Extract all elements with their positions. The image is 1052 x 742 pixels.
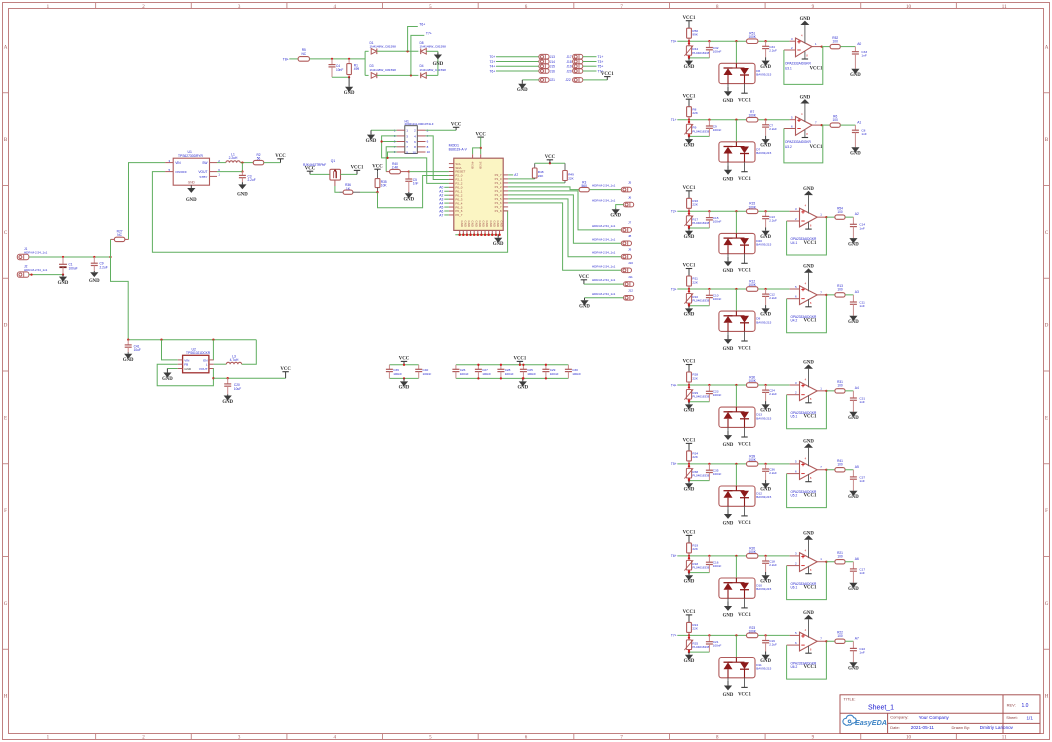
resistor R41 100 [835, 459, 845, 472]
svg-text:VCC1: VCC1 [683, 186, 696, 191]
resistor R16 22K [687, 198, 699, 211]
svg-text:VCC1: VCC1 [810, 67, 823, 72]
resistor R22 100 [835, 630, 845, 643]
svg-text:11: 11 [1002, 5, 1007, 10]
svg-text:100nF: 100nF [550, 372, 559, 376]
capacitor C41 10uF [125, 340, 141, 353]
junction C24 tap [764, 384, 766, 386]
connector J15 [539, 64, 555, 69]
svg-text:U4.2: U4.2 [791, 319, 798, 323]
junction C15 tap [708, 210, 710, 212]
junction MOD1 gnd pin [477, 234, 480, 237]
svg-text:H: H [4, 695, 8, 700]
ground below R17 [684, 228, 695, 240]
net label T6+ [490, 69, 496, 73]
svg-text:GND: GND [493, 242, 504, 247]
svg-text:GND: GND [684, 65, 695, 70]
svg-text:GND: GND [684, 409, 695, 414]
power symbol VCC1 at R8 [683, 94, 696, 106]
ground below R29 [684, 402, 695, 414]
svg-text:GND: GND [723, 443, 734, 448]
junction U2 VIN tap [160, 339, 162, 341]
svg-text:T2+: T2+ [490, 60, 496, 64]
net label T5+ channel 6 [671, 462, 677, 466]
svg-text:A7: A7 [514, 173, 518, 177]
svg-text:100K: 100K [748, 629, 756, 633]
ground below R25 [684, 652, 695, 664]
ground below C7 [760, 136, 771, 149]
resistor R39 100K [747, 454, 758, 466]
junction R38 top [688, 465, 690, 467]
wire U2 input rail [128, 339, 256, 341]
photoresistor R44 [684, 41, 709, 58]
wire bridge right vertical [437, 51, 439, 75]
power symbol VCC1 at U6.1 [804, 586, 817, 591]
svg-text:1nF: 1nF [861, 54, 866, 58]
junction U5.2 output [825, 469, 827, 471]
wire channel 1 main net [677, 40, 789, 42]
svg-text:100K: 100K [748, 205, 756, 209]
net label A7 [855, 636, 859, 640]
EasyEDA logo [843, 715, 887, 727]
svg-text:100K: 100K [748, 550, 756, 554]
svg-text:2.2uF: 2.2uF [769, 127, 777, 131]
power symbol VCC1 at U4.2 [804, 319, 817, 324]
net label T5+ [598, 65, 604, 69]
connector J18 [566, 59, 582, 64]
op-amp U4.2 OPA2333AIDGKR [787, 273, 827, 323]
svg-text:2.2uF: 2.2uF [769, 296, 777, 300]
svg-text:1nF: 1nF [861, 132, 866, 136]
svg-text:PL04016338: PL04016338 [692, 51, 709, 55]
svg-text:J21: J21 [550, 78, 555, 82]
svg-text:HDR-M-2.54_1x1: HDR-M-2.54_1x1 [592, 184, 616, 188]
ground at VCC1 cap bank [517, 378, 528, 390]
svg-text:HDR-M-2.54_1x1: HDR-M-2.54_1x1 [592, 264, 616, 268]
junction C20 tap [227, 377, 229, 379]
junction U5.1 output [825, 390, 827, 392]
junction C1 tap [62, 256, 64, 258]
header H1 2x5 [394, 119, 434, 154]
svg-text:100nF: 100nF [713, 393, 722, 397]
power symbol VCC1 at cap bank [514, 357, 527, 365]
svg-text:VCC1: VCC1 [351, 166, 364, 171]
power symbol VCC1 at U4.1 [804, 241, 817, 246]
svg-text:GND: GND [723, 614, 734, 619]
svg-text:10uF: 10uF [234, 387, 241, 391]
svg-text:4.7uH: 4.7uH [230, 358, 239, 362]
ground at VCC cap bank [399, 378, 410, 390]
dual diode D20 BAV99 [719, 233, 772, 263]
capacitor C25 [520, 365, 536, 379]
wire U2 L pin [214, 363, 227, 365]
ground at J6 [610, 209, 621, 219]
wire net A7 stub [444, 214, 449, 216]
svg-text:GND: GND [684, 488, 695, 493]
diode D1 1N4148W [370, 41, 397, 54]
wire Q1 drain stub [334, 180, 336, 186]
svg-text:1N4148W_C81598: 1N4148W_C81598 [370, 68, 397, 72]
resistor R23 100K [747, 626, 758, 638]
svg-text:100nF: 100nF [527, 372, 536, 376]
net label A3 [439, 197, 443, 201]
capacitor C20 10uF [224, 378, 241, 394]
net label A3 [855, 290, 859, 294]
svg-text:3V3B: 3V3B [479, 162, 483, 169]
junction C9 tap [708, 119, 710, 121]
junction R44 top [688, 42, 690, 44]
svg-text:GND: GND [800, 95, 811, 100]
capacitor C21 100nF [706, 635, 722, 652]
ground at U1 [186, 185, 197, 203]
net label A0 [857, 42, 861, 46]
ground below C24 [760, 401, 771, 414]
wire net A4 stub [444, 202, 449, 204]
junction R18 node [688, 555, 690, 557]
wire MOD1 to R49 [508, 182, 565, 184]
svg-text:GND: GND [760, 65, 771, 70]
capacitor C10 100nF [706, 289, 722, 306]
svg-text:U3.1: U3.1 [785, 67, 792, 71]
junction VCC1 stem [519, 364, 521, 366]
ground below R9 [684, 136, 695, 148]
capacitor C24 2.2uF [762, 385, 777, 401]
resistor R20 100K [747, 546, 758, 558]
wire MOD1 to J7 [508, 191, 621, 230]
resistor R7 100K [747, 110, 758, 122]
dual diode D10 BAV99 [719, 578, 772, 608]
transistor Q1 RJK4462TRPbF [303, 159, 341, 180]
svg-text:GND: GND [760, 143, 771, 148]
svg-text:A6: A6 [855, 557, 859, 561]
power symbol VCC1 at U5.1 [804, 415, 817, 420]
svg-text:GND: GND [684, 580, 695, 585]
svg-text:VCC1: VCC1 [738, 177, 751, 182]
svg-text:1nF: 1nF [859, 479, 864, 483]
resistor R40 2.4K [386, 162, 409, 174]
net label T7+ [598, 69, 604, 73]
svg-text:10: 10 [906, 5, 912, 10]
svg-text:10K: 10K [381, 184, 388, 188]
wire clamp to D12 [735, 464, 737, 486]
junction R10 bottom [688, 303, 690, 305]
svg-text:Date:: Date: [890, 725, 900, 730]
wire R29 ground link [689, 401, 709, 403]
svg-text:VCC1: VCC1 [683, 264, 696, 269]
wire T6+ vertical to MOD1 [407, 50, 409, 52]
wire channel 6 main net [677, 463, 789, 465]
svg-text:GND: GND [848, 667, 859, 672]
svg-text:VCC1: VCC1 [683, 439, 696, 444]
svg-text:2.2uF: 2.2uF [100, 265, 108, 269]
capacitor C11 1nF [850, 295, 865, 316]
wire T8+ to R5 [289, 58, 298, 60]
svg-text:A: A [1045, 45, 1049, 50]
svg-text:VCC: VCC [475, 132, 486, 137]
svg-text:J13: J13 [550, 55, 555, 59]
capacitor C40 [415, 365, 431, 379]
connector J2 [17, 265, 47, 278]
junction clamp tap [735, 40, 737, 42]
connector J22 [565, 78, 582, 83]
svg-text:1nF: 1nF [859, 226, 864, 230]
svg-text:GND: GND [489, 221, 493, 227]
svg-text:GND: GND [366, 139, 377, 144]
junction node T7+ [410, 74, 412, 76]
junction MOD1 gnd pin [491, 234, 494, 237]
junction J2 stub [30, 273, 32, 275]
junction C18 tap [764, 555, 766, 557]
junction pullup VCC [549, 162, 551, 164]
wire diode rows left vertical [364, 51, 366, 75]
svg-text:100nF: 100nF [460, 372, 469, 376]
svg-text:GND: GND [723, 99, 734, 104]
junction R10 node [688, 288, 690, 290]
svg-text:OPA2333AIDGKR: OPA2333AIDGKR [785, 62, 812, 66]
svg-text:10uF: 10uF [134, 348, 141, 352]
svg-text:GND: GND [760, 580, 771, 585]
svg-text:BAV99,215: BAV99,215 [756, 151, 771, 155]
svg-text:GND: GND [478, 221, 482, 227]
title block [840, 695, 1040, 734]
ground above U4.2 [803, 265, 814, 273]
wire U2 EN to rail [212, 340, 214, 360]
junction MOD1 gnd pin [466, 234, 469, 237]
ground below R44 [684, 58, 695, 70]
svg-text:GND: GND [803, 440, 814, 445]
svg-text:1nF: 1nF [859, 571, 864, 575]
resistor R54 100 [835, 206, 845, 219]
wire pullup rail [535, 162, 565, 164]
svg-text:U3.2: U3.2 [785, 145, 792, 149]
svg-text:Sheet:: Sheet: [1006, 715, 1018, 720]
wire channel 4 main net [677, 288, 789, 290]
junction MOD1 gnd pin [480, 234, 483, 237]
wire output to R22 [826, 640, 835, 642]
wire MOD1 ground rail [455, 234, 499, 236]
net label A1 [857, 120, 861, 124]
junction R25 top [688, 637, 690, 639]
connector J13 [539, 54, 555, 59]
svg-text:T4+: T4+ [671, 383, 677, 387]
svg-text:2.2uF: 2.2uF [769, 471, 777, 475]
wire U2 GND pin [167, 368, 177, 370]
svg-text:T7+: T7+ [426, 32, 432, 36]
resistor R3 560 [579, 180, 589, 191]
svg-text:GND: GND [162, 377, 173, 382]
dual diode D13 BAV99 [719, 407, 772, 437]
svg-text:J5: J5 [628, 180, 632, 184]
capacitor C28 [497, 365, 513, 379]
ground below C33 [850, 69, 861, 78]
junction MOD1 gnd pin [498, 234, 501, 237]
ground below D9 [723, 335, 734, 352]
ground below C37 [848, 491, 859, 500]
power symbol VCC at R35 [372, 164, 383, 171]
svg-text:T3+: T3+ [671, 287, 677, 291]
svg-text:D: D [1045, 324, 1049, 329]
ground below R18 [684, 573, 695, 585]
net label A6 [855, 557, 859, 561]
svg-text:T2+: T2+ [671, 210, 677, 214]
svg-text:100K: 100K [748, 283, 756, 287]
svg-text:TITLE:: TITLE: [844, 696, 856, 701]
ground below R1 [344, 77, 355, 96]
net label A0 [439, 186, 443, 190]
wire J2 battery negative [29, 274, 63, 276]
junction C10 tap [708, 288, 710, 290]
svg-text:VCC: VCC [579, 275, 590, 280]
ground at MOD1 [493, 235, 504, 247]
svg-text:GND: GND [496, 221, 500, 227]
svg-text:100: 100 [833, 39, 839, 43]
junction C19 tap [764, 634, 766, 636]
svg-text:A2: A2 [855, 212, 859, 216]
net label T6+ channel 7 [671, 554, 677, 558]
ground below D11 [723, 681, 734, 698]
svg-text:VCC1: VCC1 [738, 442, 751, 447]
svg-text:J7: J7 [628, 221, 632, 225]
junction C34 tap [764, 40, 766, 42]
svg-text:T8+: T8+ [283, 57, 289, 61]
resistor R13 100 [835, 284, 845, 297]
regulator U1 TPS62730DRYR [165, 150, 220, 185]
junction J1 to R27 [109, 256, 111, 258]
capacitor C17 1nF [850, 562, 865, 583]
svg-text:Company:: Company: [890, 715, 908, 720]
wire MOD1 to J8 [508, 195, 621, 243]
svg-text:100nF: 100nF [713, 49, 722, 53]
svg-text:GND: GND [344, 91, 355, 96]
power symbol VCC at U2 output [280, 367, 291, 378]
svg-text:10: 10 [427, 150, 431, 154]
wire net A1 stub [444, 190, 449, 192]
op-amp U6.2 OPA2333AIDGKR [787, 619, 827, 669]
svg-text:499: 499 [354, 67, 360, 71]
power symbol VCC at cap bank [399, 357, 410, 365]
op-amp U5.1 OPA2333AIDGKR [787, 369, 827, 419]
svg-text:GND: GND [482, 221, 486, 227]
junction R38 node [688, 463, 690, 465]
connector J9 [592, 248, 632, 260]
wire J21 to ground [522, 79, 539, 81]
junction R9 top [688, 121, 690, 123]
capacitor C27 [475, 365, 491, 379]
svg-text:100: 100 [837, 555, 843, 559]
svg-text:100: 100 [837, 634, 843, 638]
connector J6 [592, 195, 634, 207]
op-amp U3.2 OPA2333AIDGKR [784, 104, 822, 150]
junction R44 node [688, 40, 690, 42]
diode D8 1N4148W [420, 41, 447, 54]
svg-text:J20: J20 [566, 69, 571, 73]
wire H1 pin2 to VCC [426, 129, 457, 131]
junction MOD1 gnd pin [462, 234, 465, 237]
svg-text:VCC1: VCC1 [738, 693, 751, 698]
capacitor C23 100nF [706, 385, 722, 402]
svg-text:100nF: 100nF [572, 372, 581, 376]
wire R44 ground link [689, 57, 709, 59]
junction bank top [522, 364, 524, 366]
svg-text:1N4148W_C81598: 1N4148W_C81598 [370, 45, 397, 49]
junction ground link [688, 401, 690, 403]
svg-text:EasyEDA: EasyEDA [855, 718, 887, 727]
svg-text:GND: GND [123, 358, 134, 363]
svg-text:J10: J10 [628, 261, 633, 265]
net label T1+ channel 2 [671, 118, 677, 122]
wire ON/OFF long net to MOD1 [152, 172, 507, 253]
svg-text:Drawn By:: Drawn By: [952, 725, 970, 730]
ground above U6.2 [803, 611, 814, 619]
svg-text:J8: J8 [628, 234, 632, 238]
junction C35 tap [708, 463, 710, 465]
svg-text:Q1: Q1 [331, 159, 336, 163]
junction U4.1 output [825, 216, 827, 218]
net label A2 [855, 212, 859, 216]
dual diode D7 BAV99 [719, 142, 772, 172]
junction clamp tap [735, 119, 737, 121]
junction U3.2 output [821, 124, 823, 126]
wire net A5 stub [444, 206, 449, 208]
svg-text:22K: 22K [568, 176, 574, 180]
ground below R38 [684, 481, 695, 493]
svg-text:HDR-M-2.54_1x1: HDR-M-2.54_1x1 [24, 250, 48, 254]
wire R6 to A1 [840, 124, 855, 126]
wire net T6+ [408, 27, 418, 52]
wire clamp to D6 [735, 41, 737, 63]
net label T0+ [490, 55, 496, 59]
resistor R2 [253, 153, 264, 165]
svg-text:2.2uF: 2.2uF [769, 563, 777, 567]
svg-text:VCC1: VCC1 [738, 613, 751, 618]
ground below D10 [723, 602, 734, 619]
svg-text:F: F [4, 509, 7, 514]
svg-text:VCC1: VCC1 [804, 586, 817, 591]
net label T7+ channel 8 [671, 634, 677, 638]
svg-text:GND: GND [760, 313, 771, 318]
svg-text:100: 100 [833, 118, 839, 122]
net label T7+ [426, 32, 432, 36]
photoresistor R25 [684, 635, 709, 652]
junction R9 bottom [688, 134, 690, 136]
wire channel 3 main net [677, 210, 789, 212]
svg-text:GND: GND [610, 214, 621, 219]
svg-text:100nF: 100nF [423, 372, 432, 376]
junction C36 tap [764, 463, 766, 465]
wire battery rail down to U2 [111, 239, 129, 339]
capacitor C1 100uF [59, 257, 78, 275]
svg-text:100K: 100K [748, 458, 756, 462]
power symbol VCC1 at U3.2 [810, 145, 823, 150]
wire row2 left [365, 74, 369, 76]
power symbol VCC1 at U5.2 [804, 494, 817, 499]
svg-text:VCC1: VCC1 [804, 319, 817, 324]
wire VCC to Q1 [310, 173, 330, 175]
photoresistor R10 [684, 289, 709, 306]
svg-text:VCC: VCC [372, 164, 383, 169]
svg-text:1nF: 1nF [859, 650, 864, 654]
ground below C14 [848, 238, 859, 247]
svg-text:1nF: 1nF [413, 182, 419, 186]
wire MOD1 to J10 [508, 203, 621, 270]
wire U2 FB loop [157, 364, 213, 386]
svg-text:PL04016338: PL04016338 [692, 299, 709, 303]
svg-text:100nF: 100nF [713, 644, 722, 648]
svg-text:1.0: 1.0 [1022, 703, 1029, 709]
connector J20 [566, 69, 582, 74]
capacitor C33 1nF [852, 47, 867, 69]
junction bank bottom [500, 377, 502, 379]
